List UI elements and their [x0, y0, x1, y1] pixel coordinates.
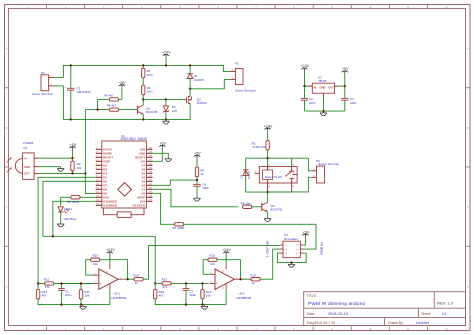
svg-text:+24V: +24V — [162, 51, 171, 55]
U1 left pin D1/TX — [96, 148, 112, 152]
relay K1 TQ2-12V — [255, 158, 298, 192]
svg-text:Screw Terminal: Screw Terminal — [32, 92, 53, 96]
junction +24V rail — [165, 64, 167, 66]
resistor R18 4k7 — [154, 283, 165, 304]
resistor R2 1K — [142, 85, 154, 99]
wire R7 to P4 pin4 — [304, 224, 316, 249]
svg-text:10k: 10k — [206, 294, 211, 298]
svg-text:+5V: +5V — [342, 67, 349, 71]
U1 left pin D2 — [96, 164, 108, 168]
regulator U2 78L05 — [308, 75, 339, 96]
power flag +24V opamp2 — [222, 248, 231, 263]
svg-text:TITLE:: TITLE: — [307, 294, 317, 298]
wire regulator output — [339, 85, 345, 87]
svg-text:+5V: +5V — [70, 143, 77, 147]
svg-text:100uF/63V: 100uF/63V — [76, 90, 91, 94]
svg-text:D13/SCK: D13/SCK — [133, 203, 147, 207]
svg-text:D12/MISO: D12/MISO — [103, 204, 118, 208]
wire OUT line to D9 — [39, 172, 86, 174]
ground symbol regulator — [323, 111, 325, 113]
svg-text:+24V: +24V — [264, 124, 273, 128]
junction Q1 emitter gnd rail — [142, 118, 144, 120]
junction D5 top — [165, 98, 167, 100]
wire GND pin — [39, 166, 61, 168]
junction reg gnd — [322, 110, 324, 112]
U1 right pin A6 — [141, 168, 152, 172]
wire stage1 input node — [38, 283, 45, 285]
zener diode D5 12V — [163, 99, 177, 119]
svg-text:47k: 47k — [45, 285, 50, 289]
svg-text:R4 4k7: R4 4k7 — [107, 103, 117, 107]
U1 right pin A1 — [141, 188, 152, 192]
resistor R10 10k feedback — [86, 254, 128, 280]
wire +24V top rail — [63, 65, 230, 77]
resistor R9 4k7 pullup — [98, 93, 122, 109]
junction C5 bottom — [185, 303, 187, 305]
svg-text:R10: R10 — [93, 254, 99, 258]
U1 left pin GND — [96, 160, 111, 164]
capacitor C5 100n — [183, 283, 197, 304]
U1 left pin D6 — [96, 180, 108, 184]
svg-text:Date:: Date: — [307, 312, 316, 316]
svg-text:1k: 1k — [200, 172, 204, 176]
junction C6 bottom — [60, 303, 62, 305]
wire A2 to RC filter — [153, 180, 198, 185]
svg-text:EasyEDA V5.7.26: EasyEDA V5.7.26 — [307, 321, 336, 325]
power flag +5V pullup — [119, 81, 127, 100]
svg-text:78L05: 78L05 — [318, 79, 327, 83]
svg-text:R14: R14 — [133, 273, 139, 277]
resistor R17 47k — [155, 277, 209, 289]
svg-text:100n: 100n — [189, 293, 196, 297]
svg-text:+5V: +5V — [194, 152, 201, 156]
wire D6 to opamp2 input — [43, 181, 96, 236]
junction P4 gnd — [290, 261, 292, 263]
svg-text:Screw Terminal: Screw Terminal — [235, 88, 256, 92]
svg-text:10uF: 10uF — [202, 186, 209, 190]
junction C3 bottom — [70, 118, 72, 120]
ground symbol LED1 — [60, 222, 62, 224]
header P4 6P — [280, 233, 304, 258]
power flag +24V regulator input — [301, 64, 310, 86]
wire Q2 gate line — [143, 98, 184, 100]
U1 left pin D12/MISO — [96, 204, 118, 208]
U1 right pin A7 — [141, 164, 152, 168]
power flag +5V arduino — [153, 142, 167, 162]
wire A0 to R7 line — [153, 193, 175, 224]
junction D1 top rail — [189, 64, 191, 66]
resistor R1 1K — [142, 65, 154, 85]
svg-text:+5V: +5V — [302, 230, 309, 234]
junction R2 bottom gate node — [142, 98, 144, 100]
svg-text:470R-1W: 470R-1W — [253, 145, 266, 149]
junction IR OUT tap — [84, 172, 86, 174]
junction R16 top — [201, 282, 203, 284]
U1 right pin A2 — [141, 184, 152, 188]
resistor R7 100R — [173, 223, 316, 231]
junction R4 node — [96, 108, 98, 110]
svg-text:Drawn By:: Drawn By: — [388, 321, 404, 325]
power flag +5V IR — [69, 143, 77, 158]
junction R16 bottom — [201, 303, 203, 305]
svg-text:OUT: OUT — [328, 86, 334, 90]
U1 left pin D7 — [96, 184, 108, 188]
opamp U4.1 LM358PSR — [93, 263, 127, 300]
resistor R8 10k — [241, 202, 262, 209]
junction C5 top — [185, 282, 187, 284]
U1 bottom pin D13/SCK — [133, 203, 147, 207]
svg-text:PWM IR dimming arduino: PWM IR dimming arduino — [308, 301, 365, 307]
svg-text:R7 100R: R7 100R — [173, 226, 186, 230]
U1 right pin VIN — [140, 148, 152, 152]
svg-text:1N4007: 1N4007 — [194, 78, 205, 82]
junction R5 bottom — [266, 157, 268, 159]
ground symbol P4 — [291, 263, 293, 265]
power flag +24V relay — [264, 124, 273, 140]
svg-text:+: + — [65, 85, 67, 89]
wire stage2 out to P4 pin3 — [260, 249, 280, 279]
svg-text:PWR IN: PWR IN — [320, 242, 324, 255]
wire regulator input — [305, 85, 309, 87]
svg-text:100n: 100n — [309, 101, 316, 105]
capacitor C2 100n — [301, 86, 316, 111]
junction output2 feedback — [239, 278, 241, 280]
wire lower PWM bus to stage2 — [43, 236, 155, 283]
capacitor C6 100n — [58, 284, 72, 305]
resistor R14 1k — [133, 273, 143, 285]
junction reg in — [303, 85, 305, 87]
svg-text:OUT: OUT — [24, 172, 30, 176]
svg-text:R15: R15 — [209, 254, 215, 258]
wire gnd rail stage2 — [155, 304, 226, 306]
svg-text:10k: 10k — [93, 262, 98, 266]
wire P2 pin1 to ground rail — [54, 85, 63, 87]
svg-text:+24V: +24V — [222, 248, 231, 252]
U1 right pin GND — [139, 152, 153, 156]
wire relay contact to P3 — [292, 158, 312, 192]
svg-text:1N4007: 1N4007 — [247, 170, 251, 180]
svg-text:1-10V out: 1-10V out — [266, 240, 270, 257]
capacitor C3 100uF/63V — [65, 65, 91, 119]
ground symbol main rail — [165, 119, 167, 121]
svg-text:Leddim: Leddim — [416, 320, 430, 325]
power flag +5V regulator output — [342, 67, 350, 86]
svg-text:+: + — [216, 282, 218, 286]
wire regulator ground rail — [305, 97, 345, 112]
resistor R3 10k — [71, 158, 82, 173]
svg-text:10k: 10k — [84, 294, 89, 298]
resistor R8 1k — [195, 167, 204, 180]
svg-text:10k: 10k — [210, 262, 215, 266]
junction output feedback — [126, 278, 128, 280]
wire P2 pin2 to rail — [54, 76, 63, 78]
svg-text:1k: 1k — [252, 281, 256, 285]
svg-text:+5V: +5V — [119, 81, 126, 85]
junction V+ R3 — [71, 157, 73, 159]
ground symbol stage2 — [204, 305, 206, 307]
arduino U1 ARDUINO_NANO — [102, 134, 148, 208]
U1 left pin RESET — [96, 156, 114, 160]
junction C3 top — [70, 64, 72, 66]
svg-text:V+: V+ — [24, 156, 28, 160]
U1 logo diamond — [118, 183, 132, 197]
svg-text:1KΩ: 1KΩ — [147, 73, 154, 77]
wire GND bottom rail — [63, 86, 190, 120]
screw terminal P1 — [231, 62, 256, 93]
svg-text:R19: R19 — [250, 273, 256, 277]
svg-text:+5V: +5V — [159, 142, 166, 146]
wire opamp2 output — [240, 278, 251, 280]
ground symbol arduino — [153, 153, 172, 161]
wire D11 to lower net — [53, 201, 96, 236]
U1 left pin D8 — [96, 188, 108, 192]
svg-text:+: + — [100, 282, 102, 286]
U1 left pin D5 — [96, 176, 108, 180]
junction R11 top — [80, 282, 82, 284]
junction reg out — [344, 85, 346, 87]
svg-text:4k7: 4k7 — [42, 294, 47, 298]
wire stage1 out to P4 pin1 — [143, 246, 280, 280]
svg-text:VS1838: VS1838 — [23, 141, 34, 145]
svg-text:1/1: 1/1 — [442, 312, 447, 316]
resistor R15 10k feedback — [203, 254, 241, 280]
svg-text:P1: P1 — [235, 62, 239, 66]
ground symbol IR — [60, 167, 62, 169]
resistor R16 10k — [201, 283, 212, 304]
svg-text:Relay-TQ2 12V: Relay-TQ2 12V — [265, 176, 283, 179]
svg-text:6P header: 6P header — [284, 237, 298, 241]
wire drain node to P1 pin1 — [190, 79, 231, 88]
resistor R12 47k — [44, 278, 93, 290]
wire PWM node down to D9 — [85, 110, 95, 194]
svg-text:REV: 1.0: REV: 1.0 — [437, 301, 454, 306]
U1 right pin 3V3 — [140, 200, 153, 204]
U1 left pin D9 — [96, 192, 108, 196]
U1 right pin RESET — [135, 156, 152, 160]
svg-text:R17: R17 — [162, 277, 168, 281]
svg-text:4k7: 4k7 — [159, 294, 164, 298]
svg-text:2018-10-19: 2018-10-19 — [328, 311, 349, 316]
power flag +24V main rail — [162, 51, 171, 66]
wire opamp2 pin4 to gnd — [225, 290, 227, 305]
IR receiver U3 VS1838 — [7, 141, 39, 179]
junction R1 top — [142, 64, 144, 66]
U1 right pin +5V — [140, 160, 153, 164]
wire coil low to Q3 — [246, 191, 268, 193]
svg-text:10k: 10k — [77, 166, 82, 170]
resistor R4 4k7 base — [85, 103, 137, 111]
U1 usb connector drawing — [103, 208, 144, 218]
svg-text:LM358PSR: LM358PSR — [111, 296, 127, 300]
transistor Q3 BC547B — [262, 192, 282, 217]
U1 left pin D0/RX — [96, 152, 112, 156]
title block — [304, 292, 466, 326]
svg-text:IRF540: IRF540 — [197, 101, 207, 105]
junction D5 bottom on gnd rail — [165, 118, 167, 120]
wire V+ line — [39, 157, 73, 159]
svg-text:LED1: LED1 — [64, 207, 72, 211]
wire D5 to opamp1 input — [38, 177, 96, 283]
junction D11 joins bus — [52, 235, 54, 237]
U1 left pin D4 — [96, 172, 108, 176]
junction R3 bottom OUT — [71, 172, 73, 174]
svg-text:+24V: +24V — [301, 64, 310, 68]
svg-text:BC547B: BC547B — [146, 110, 157, 114]
power flag +5V RC — [194, 152, 202, 168]
resistor R19 1k — [250, 273, 260, 285]
junction RC node — [196, 179, 198, 181]
svg-text:BC547B: BC547B — [270, 207, 281, 211]
svg-text:47k: 47k — [162, 285, 167, 289]
wire opamp1 output — [123, 278, 134, 280]
svg-text:100n: 100n — [65, 293, 72, 297]
junction C6 top — [60, 282, 62, 284]
diode D4 1N4007 flyback — [240, 170, 251, 180]
transistor Q1 BC547B — [138, 99, 158, 119]
resistor R5 470R-1W — [252, 140, 270, 158]
wire opamp1 pin4 to gnd — [109, 290, 111, 305]
junction R11 bottom — [80, 303, 82, 305]
screw terminal P2 — [32, 71, 54, 96]
U1 right pin A0 — [141, 192, 152, 196]
svg-text:R9 4k7: R9 4k7 — [104, 93, 114, 97]
ground symbol stage1 — [82, 305, 84, 307]
junction D1 anode drain node — [189, 88, 191, 90]
junction stage2 node — [154, 282, 156, 284]
resistor R13 4k7 — [36, 284, 47, 305]
ground symbol C4 — [196, 196, 198, 198]
capacitor C4 10uF — [193, 180, 209, 196]
led LED1 blue — [58, 207, 77, 222]
U1 left pin D3 — [96, 168, 108, 172]
svg-text:Sheet:: Sheet: — [421, 312, 431, 316]
U1 left pin D10 — [96, 196, 109, 200]
svg-text:1k: 1k — [135, 281, 139, 285]
wire P4 gnd pins — [277, 253, 306, 263]
junction relay coil low — [266, 191, 268, 193]
svg-text:+24V: +24V — [106, 248, 115, 252]
power flag +24V opamp1 — [106, 248, 115, 263]
svg-text:U3: U3 — [23, 146, 27, 150]
U1 right pin A4 — [141, 176, 152, 180]
svg-text:LED Blue: LED Blue — [64, 217, 77, 221]
U1 right pin A5 — [141, 172, 152, 176]
mosfet Q2 IRF540 — [185, 89, 207, 120]
resistor R6 330R led — [61, 196, 96, 206]
wire relay top line — [246, 158, 309, 192]
U1 right pin AREF — [137, 196, 153, 200]
svg-text:1KΩ: 1KΩ — [147, 90, 154, 94]
U1 right pin A3 — [141, 180, 152, 184]
svg-text:IN: IN — [314, 86, 317, 90]
wire A1 to R8 base drive — [153, 189, 238, 207]
diode D1 1N4007 — [187, 65, 204, 88]
screw terminal P3 — [312, 159, 339, 183]
U1 left pin D11/MOSI — [96, 200, 118, 204]
svg-text:100n: 100n — [350, 101, 357, 105]
svg-text:LM358PSR: LM358PSR — [236, 296, 252, 300]
wire opamp2 IN- stub — [203, 273, 210, 275]
wire gnd rail stage1 — [38, 304, 110, 306]
junction stage1 node — [37, 282, 39, 284]
resistor R11 10k — [79, 284, 90, 305]
opamp U4.2 LM358PSR — [210, 263, 253, 300]
svg-text:R6 330R: R6 330R — [67, 200, 80, 204]
capacitor C1 100n — [341, 86, 357, 111]
svg-text:GND: GND — [24, 165, 30, 169]
wire relay bottom continuation — [268, 191, 292, 193]
power flag +5V P4 — [302, 230, 310, 245]
ground symbol Q3 — [267, 217, 269, 219]
svg-text:R12: R12 — [44, 278, 50, 282]
svg-text:12V: 12V — [172, 109, 177, 113]
svg-text:GND: GND — [320, 86, 326, 90]
